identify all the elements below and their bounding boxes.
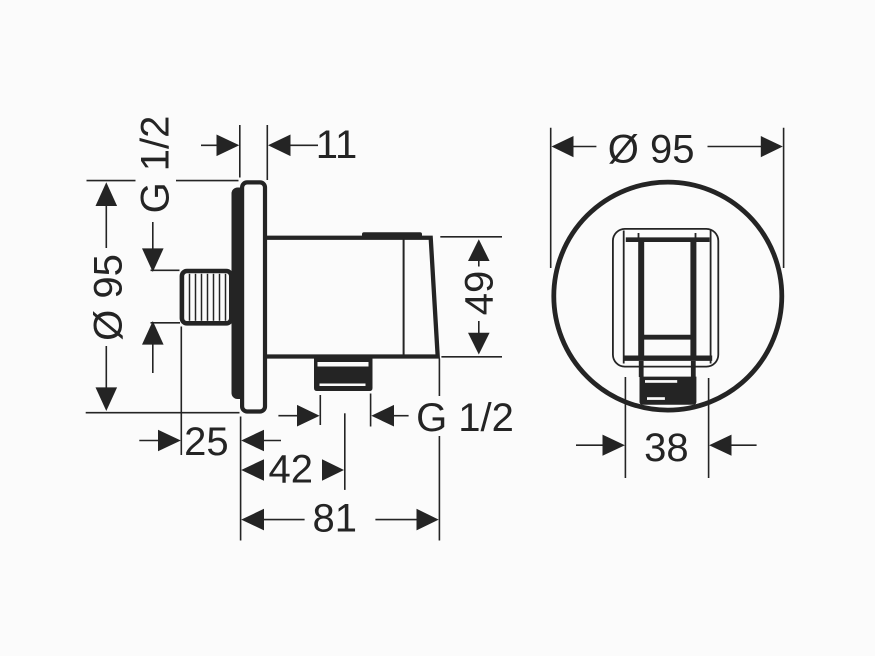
dimension O95 front: left arrow xyxy=(552,136,574,157)
chamfer line right xyxy=(710,231,712,364)
dimension 25: right arrow xyxy=(241,430,264,452)
dimension O95: top extension line xyxy=(87,180,136,182)
bottom outlet nut (side view, dark) xyxy=(314,358,373,392)
svg-text:11: 11 xyxy=(316,123,358,167)
dimension 38: left arrow xyxy=(576,444,603,446)
flange circle xyxy=(554,182,782,410)
outlet collar sides xyxy=(639,361,644,377)
recess side bar right xyxy=(690,240,696,359)
chamfer line left xyxy=(623,231,625,364)
dimension 11: right arrow xyxy=(268,135,291,157)
svg-text:25: 25 xyxy=(184,420,229,464)
dimension O95: bottom extension line xyxy=(86,412,240,414)
recess top bar xyxy=(626,237,710,242)
body end-cap inner line xyxy=(403,240,405,355)
nut highlight stripes xyxy=(318,362,369,367)
dimension 38: extension lines xyxy=(624,377,626,478)
dimension 38: right arrow xyxy=(709,435,731,456)
nut stripes xyxy=(645,380,677,383)
thread hatch lines xyxy=(190,274,226,321)
svg-text:Ø 95: Ø 95 xyxy=(608,128,695,172)
svg-text:G 1/2: G 1/2 xyxy=(134,116,178,214)
dimension O95 front: extension lines xyxy=(550,128,552,268)
dimension 49: down arrow xyxy=(478,321,480,336)
dimension 81: right arrow xyxy=(375,519,417,521)
face bottom bar xyxy=(624,356,712,361)
svg-text:42: 42 xyxy=(269,448,314,492)
recess top corner ticks xyxy=(638,233,640,238)
svg-text:38: 38 xyxy=(644,426,689,470)
dimension 81: right extension line xyxy=(438,359,440,397)
recess side bar left xyxy=(638,240,644,359)
dimension 49: top extension line xyxy=(440,236,502,238)
body (elbow housing, side view) xyxy=(258,238,438,357)
outlet thread dim: right arrow xyxy=(370,394,372,427)
svg-text:81: 81 xyxy=(313,497,358,541)
dimension 49: up arrow xyxy=(468,239,490,261)
outlet axis extension line xyxy=(344,413,346,490)
svg-text:Ø 95: Ø 95 xyxy=(87,254,131,341)
thread dim: upper arrow (down) xyxy=(152,222,154,249)
dimension 25: extension line left xyxy=(180,327,182,456)
outlet thread dim: left arrow xyxy=(278,415,297,417)
dimension 11: extension lines xyxy=(239,125,241,178)
dimension 42: right arrow xyxy=(322,459,344,481)
dimension 25: left arrow xyxy=(139,440,158,442)
flange plate (wall escutcheon, edge view) xyxy=(242,182,265,411)
outlet nut front (dark) xyxy=(640,377,697,405)
dimension 49: bottom extension line xyxy=(441,356,502,358)
top lip on body xyxy=(362,232,422,238)
body front face (thin rounded square) xyxy=(613,229,718,367)
dimension O95: dim line + arrows xyxy=(96,182,118,206)
flange back rim (dark) xyxy=(232,188,247,400)
svg-text:G 1/2: G 1/2 xyxy=(416,396,514,440)
threaded wall inlet block xyxy=(182,271,231,323)
main extension line at wall face xyxy=(240,417,242,541)
dimension 42: left arrow xyxy=(241,459,264,481)
dimension 11: left arrow xyxy=(201,144,218,146)
dimension O95 front: right arrow xyxy=(708,146,762,148)
thread dim: lower arrow (up) xyxy=(151,322,181,324)
dimension 81: left arrow xyxy=(241,509,264,531)
window bottom bar xyxy=(639,335,696,340)
svg-text:49: 49 xyxy=(458,271,502,316)
